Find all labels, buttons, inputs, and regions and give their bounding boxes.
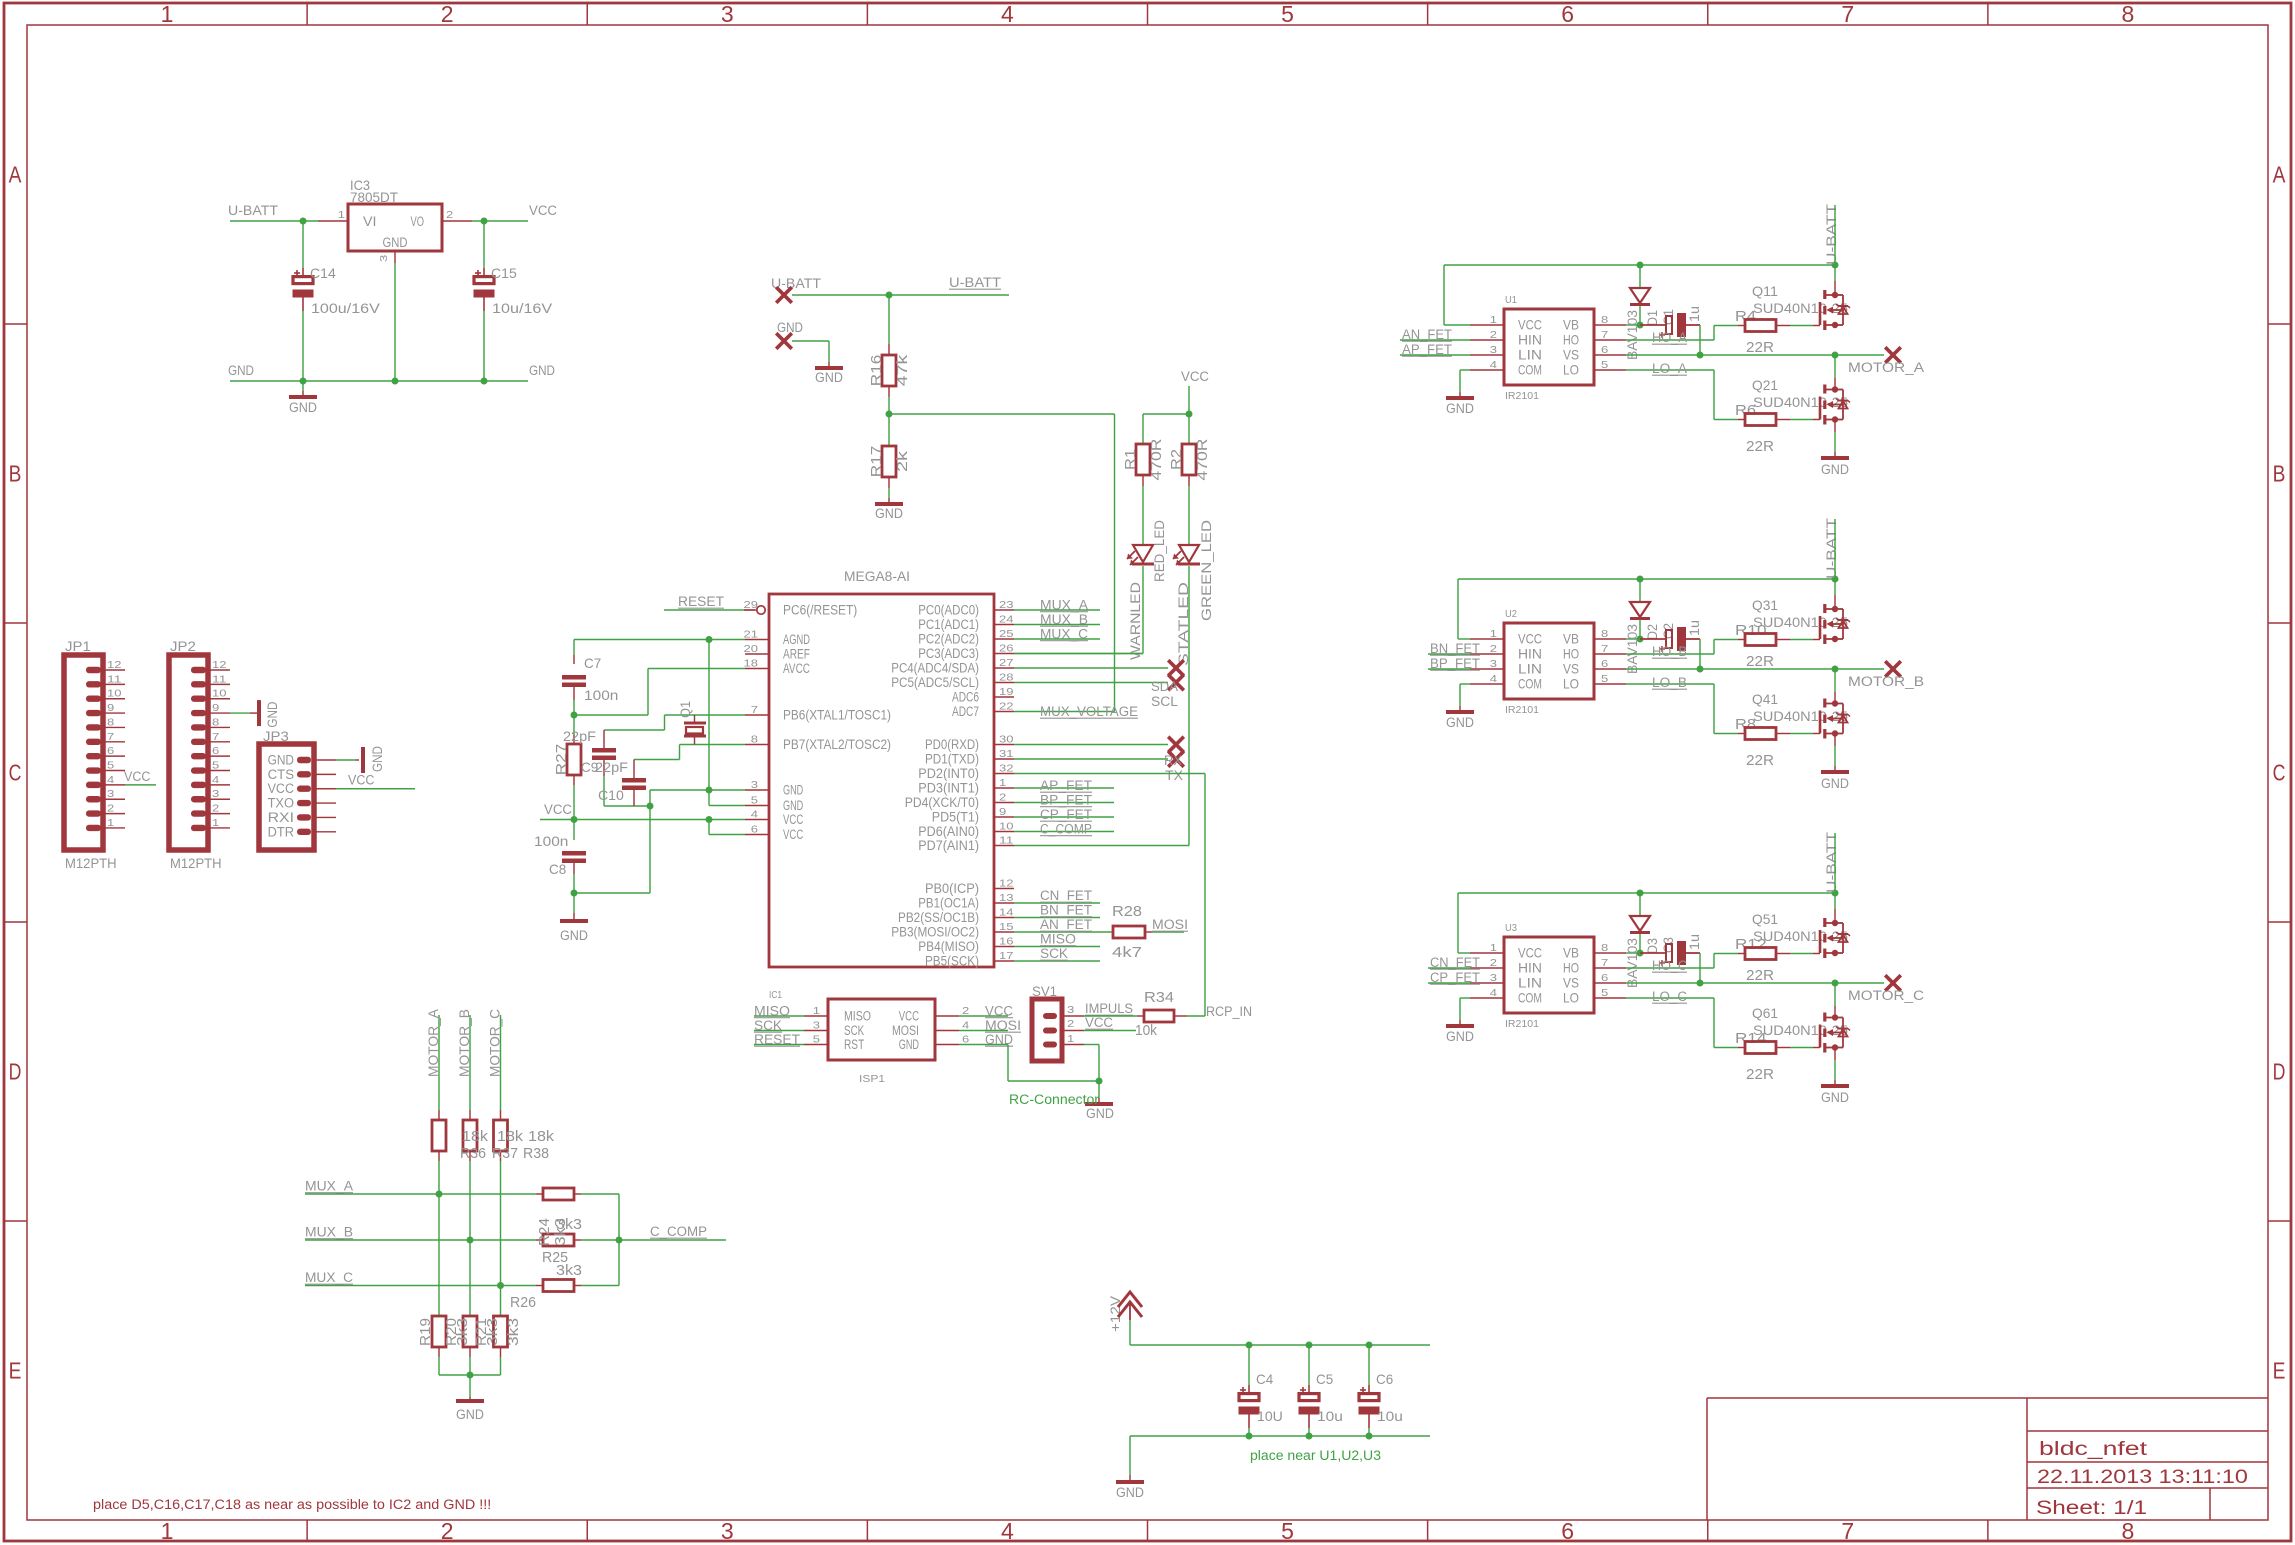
svg-text:8: 8	[2122, 1518, 2135, 1544]
svg-text:Q61: Q61	[1752, 1005, 1778, 1021]
svg-text:HIN: HIN	[1518, 332, 1542, 348]
svg-text:bldc_nfet: bldc_nfet	[2039, 1439, 2148, 1460]
svg-text:GND: GND	[383, 235, 408, 250]
svg-text:IMPULS: IMPULS	[1085, 1001, 1133, 1016]
svg-text:SUD40N10-25: SUD40N10-25	[1753, 300, 1848, 316]
svg-text:VCC: VCC	[1518, 317, 1542, 333]
svg-text:JP1: JP1	[65, 638, 91, 654]
svg-text:GND: GND	[1821, 462, 1849, 477]
svg-text:2: 2	[962, 1005, 969, 1017]
svg-text:22R: 22R	[1746, 438, 1774, 455]
svg-text:10u/16V: 10u/16V	[492, 300, 553, 316]
svg-text:C8: C8	[549, 861, 566, 877]
svg-text:GND: GND	[370, 746, 385, 772]
svg-text:Q31: Q31	[1752, 597, 1778, 613]
svg-text:10: 10	[107, 688, 122, 700]
svg-text:5: 5	[1601, 987, 1608, 999]
svg-text:C10: C10	[598, 787, 624, 803]
svg-text:1: 1	[107, 817, 114, 829]
svg-text:5: 5	[1281, 1, 1294, 27]
svg-text:6: 6	[1601, 344, 1608, 356]
svg-text:1: 1	[813, 1005, 820, 1017]
svg-text:place near U1,U2,U3: place near U1,U2,U3	[1250, 1448, 1381, 1463]
svg-text:MISO: MISO	[754, 1004, 790, 1019]
svg-text:U-BATT: U-BATT	[228, 203, 278, 218]
svg-text:PB4(MISO): PB4(MISO)	[918, 939, 979, 954]
svg-text:B: B	[9, 461, 22, 487]
svg-text:4: 4	[1001, 1518, 1014, 1544]
svg-text:SUD40N10-25: SUD40N10-25	[1753, 708, 1848, 724]
svg-text:7805DT: 7805DT	[350, 189, 398, 205]
svg-text:MUX_VOLTAGE: MUX_VOLTAGE	[1040, 704, 1138, 719]
svg-text:29: 29	[744, 599, 759, 611]
svg-text:PC6(/RESET): PC6(/RESET)	[783, 603, 857, 618]
svg-text:7: 7	[1601, 643, 1608, 655]
svg-text:LO: LO	[1563, 990, 1579, 1006]
svg-text:BP_FET: BP_FET	[1040, 793, 1092, 808]
svg-text:MISO: MISO	[844, 1009, 871, 1024]
svg-text:GND: GND	[289, 400, 317, 415]
svg-text:6: 6	[1561, 1, 1574, 27]
svg-text:A: A	[2273, 162, 2286, 188]
svg-text:VB: VB	[1563, 631, 1579, 647]
svg-text:5: 5	[1281, 1518, 1294, 1544]
svg-text:IR2101: IR2101	[1505, 1018, 1539, 1030]
svg-text:3k3: 3k3	[556, 1262, 582, 1279]
svg-text:100u/16V: 100u/16V	[311, 300, 381, 316]
svg-text:2: 2	[1490, 957, 1497, 969]
svg-text:4: 4	[107, 774, 114, 786]
svg-text:22R: 22R	[1746, 1066, 1774, 1083]
svg-text:Q51: Q51	[1752, 911, 1778, 927]
svg-text:PD3(INT1): PD3(INT1)	[918, 781, 979, 796]
svg-text:AGND: AGND	[783, 632, 810, 647]
svg-text:18k: 18k	[528, 1128, 555, 1145]
svg-text:3: 3	[751, 779, 758, 791]
svg-text:32: 32	[999, 763, 1014, 775]
svg-text:30: 30	[999, 734, 1014, 746]
svg-text:MUX_C: MUX_C	[1040, 627, 1088, 642]
svg-text:VCC: VCC	[1181, 369, 1209, 384]
svg-text:GND: GND	[265, 701, 280, 727]
svg-text:2k: 2k	[894, 450, 911, 472]
svg-text:PC0(ADC0): PC0(ADC0)	[918, 603, 979, 618]
svg-text:100n: 100n	[584, 687, 618, 703]
svg-text:2: 2	[999, 792, 1006, 804]
svg-text:U1: U1	[1505, 294, 1517, 306]
svg-text:26: 26	[999, 643, 1014, 655]
svg-text:20: 20	[744, 643, 759, 655]
svg-text:E: E	[2273, 1358, 2286, 1384]
svg-text:RESET: RESET	[678, 594, 724, 609]
svg-text:22: 22	[999, 701, 1014, 713]
svg-text:BN_FET: BN_FET	[1040, 903, 1092, 918]
svg-text:VB: VB	[1563, 945, 1579, 961]
svg-text:PD1(TXD): PD1(TXD)	[925, 752, 979, 767]
svg-text:ISP1: ISP1	[859, 1073, 885, 1085]
svg-text:RXI: RXI	[268, 810, 294, 825]
svg-text:3: 3	[721, 1518, 734, 1544]
svg-text:21: 21	[744, 629, 759, 641]
svg-text:17: 17	[999, 950, 1014, 962]
svg-text:ADC6: ADC6	[952, 690, 979, 705]
svg-text:place D5,C16,C17,C18 as near a: place D5,C16,C17,C18 as near as possible…	[93, 1497, 491, 1512]
svg-text:1u: 1u	[1686, 934, 1702, 950]
svg-text:PC3(ADC3): PC3(ADC3)	[918, 646, 979, 661]
svg-text:SCK: SCK	[844, 1023, 864, 1038]
svg-text:2: 2	[446, 209, 453, 221]
svg-text:2: 2	[1067, 1018, 1074, 1030]
svg-text:TX: TX	[1165, 768, 1183, 783]
svg-text:BAV103: BAV103	[1624, 310, 1640, 360]
svg-text:GND: GND	[1446, 1029, 1474, 1044]
svg-text:2: 2	[1490, 329, 1497, 341]
svg-text:MOTOR_B: MOTOR_B	[1848, 674, 1924, 689]
svg-text:GND: GND	[560, 928, 588, 943]
svg-text:LIN: LIN	[1518, 661, 1542, 677]
svg-text:GND: GND	[1821, 776, 1849, 791]
svg-text:R1: R1	[1122, 449, 1139, 470]
svg-text:MUX_B: MUX_B	[305, 1225, 353, 1240]
svg-text:RED_LED: RED_LED	[1152, 520, 1167, 582]
svg-text:1u: 1u	[1686, 620, 1702, 636]
svg-text:PB6(XTAL1/TOSC1): PB6(XTAL1/TOSC1)	[783, 708, 891, 723]
svg-text:PC5(ADC5/SCL): PC5(ADC5/SCL)	[891, 675, 979, 690]
svg-text:GND: GND	[1116, 1485, 1144, 1500]
svg-text:VCC: VCC	[124, 769, 151, 784]
svg-text:HO_A: HO_A	[1652, 330, 1687, 345]
svg-text:5: 5	[1601, 673, 1608, 685]
svg-text:1: 1	[338, 209, 345, 221]
svg-text:MOTOR_A: MOTOR_A	[1848, 360, 1924, 375]
svg-text:VCC: VCC	[783, 812, 803, 827]
svg-text:10u: 10u	[1317, 1408, 1343, 1424]
svg-text:PD0(RXD): PD0(RXD)	[925, 737, 979, 752]
svg-text:1: 1	[212, 817, 219, 829]
svg-text:VCC: VCC	[1085, 1015, 1113, 1030]
svg-text:U-BATT: U-BATT	[949, 275, 1001, 290]
svg-text:7: 7	[212, 731, 219, 743]
svg-text:1: 1	[1490, 628, 1497, 640]
svg-text:Q11: Q11	[1752, 283, 1778, 299]
svg-text:HO_C: HO_C	[1652, 958, 1687, 973]
svg-text:3k3: 3k3	[556, 1216, 582, 1233]
svg-text:C: C	[9, 760, 22, 786]
svg-text:11: 11	[107, 673, 122, 685]
svg-text:TXO: TXO	[268, 796, 294, 811]
svg-text:CTS: CTS	[268, 767, 294, 782]
svg-text:C4: C4	[1256, 1371, 1273, 1387]
svg-text:22pF: 22pF	[595, 759, 628, 775]
svg-text:MUX_A: MUX_A	[305, 1179, 353, 1194]
svg-text:MUX_B: MUX_B	[1040, 612, 1088, 627]
svg-text:PB0(ICP): PB0(ICP)	[925, 881, 979, 896]
svg-text:7: 7	[1601, 329, 1608, 341]
svg-text:PC2(ADC2): PC2(ADC2)	[918, 632, 979, 647]
svg-text:MOSI: MOSI	[892, 1023, 919, 1038]
svg-text:4: 4	[212, 774, 219, 786]
svg-text:11: 11	[212, 673, 227, 685]
svg-text:PB1(OC1A): PB1(OC1A)	[918, 896, 979, 911]
svg-text:RC-Connector: RC-Connector	[1009, 1092, 1100, 1107]
svg-text:R26: R26	[510, 1294, 536, 1311]
svg-text:D: D	[2273, 1059, 2286, 1085]
svg-text:2: 2	[441, 1518, 454, 1544]
svg-text:IC1: IC1	[769, 989, 782, 1001]
svg-text:10: 10	[999, 821, 1014, 833]
svg-text:5: 5	[107, 760, 114, 772]
svg-text:8: 8	[751, 734, 758, 746]
svg-text:D3: D3	[1644, 938, 1660, 954]
svg-text:CP_FET: CP_FET	[1040, 807, 1092, 822]
svg-text:SDA: SDA	[1151, 679, 1178, 694]
svg-text:RX: RX	[1164, 753, 1182, 768]
svg-text:6: 6	[1601, 972, 1608, 984]
svg-text:C15: C15	[491, 265, 517, 281]
svg-text:AVCC: AVCC	[783, 661, 810, 676]
svg-text:HO_B: HO_B	[1652, 644, 1687, 659]
svg-text:3: 3	[1490, 972, 1497, 984]
svg-text:4: 4	[1490, 987, 1497, 999]
svg-text:Q21: Q21	[1752, 377, 1778, 393]
svg-text:GND: GND	[783, 798, 803, 813]
svg-text:3: 3	[1490, 658, 1497, 670]
svg-text:SUD40N10-25: SUD40N10-25	[1753, 1022, 1848, 1038]
svg-text:4: 4	[1490, 359, 1497, 371]
svg-text:U2: U2	[1505, 608, 1517, 620]
svg-text:11: 11	[999, 835, 1014, 847]
svg-text:47k: 47k	[894, 354, 911, 386]
svg-text:VCC: VCC	[268, 781, 295, 796]
svg-text:STATLED: STATLED	[1176, 582, 1191, 666]
svg-text:SCK: SCK	[754, 1018, 782, 1033]
svg-text:GND: GND	[456, 1407, 484, 1422]
svg-text:AREF: AREF	[783, 647, 810, 662]
svg-text:C5: C5	[1316, 1371, 1333, 1387]
svg-text:7: 7	[1841, 1518, 1854, 1544]
svg-text:3k3: 3k3	[484, 1318, 501, 1346]
svg-text:PD2(INT0): PD2(INT0)	[918, 766, 979, 781]
svg-text:R34: R34	[1144, 989, 1174, 1006]
svg-text:1: 1	[1067, 1033, 1074, 1045]
svg-text:IR2101: IR2101	[1505, 704, 1539, 716]
svg-text:GND: GND	[1086, 1106, 1114, 1121]
svg-text:6: 6	[751, 824, 758, 836]
svg-text:VS: VS	[1563, 975, 1579, 991]
svg-text:31: 31	[999, 748, 1014, 760]
svg-text:PD6(AIN0): PD6(AIN0)	[918, 824, 979, 839]
svg-text:VO: VO	[411, 214, 425, 229]
svg-text:16: 16	[999, 936, 1014, 948]
svg-text:5: 5	[212, 760, 219, 772]
svg-text:VCC: VCC	[544, 802, 572, 817]
svg-text:M12PTH: M12PTH	[170, 855, 222, 871]
svg-text:CN_FET: CN_FET	[1040, 888, 1092, 903]
svg-text:8: 8	[212, 716, 219, 728]
svg-text:VI: VI	[363, 214, 377, 229]
svg-text:10: 10	[212, 688, 227, 700]
svg-text:22R: 22R	[1746, 339, 1774, 356]
svg-text:SCK: SCK	[1040, 946, 1068, 961]
svg-text:3: 3	[1490, 344, 1497, 356]
svg-text:8: 8	[1601, 942, 1608, 954]
svg-text:LO_A: LO_A	[1652, 361, 1687, 376]
svg-text:VS: VS	[1563, 661, 1579, 677]
svg-text:RESET: RESET	[754, 1032, 800, 1047]
svg-text:6: 6	[107, 745, 114, 757]
svg-text:D: D	[9, 1059, 22, 1085]
svg-text:8: 8	[107, 716, 114, 728]
svg-text:PB2(SS/OC1B): PB2(SS/OC1B)	[898, 910, 979, 925]
svg-text:Sheet: 1/1: Sheet: 1/1	[2036, 1498, 2147, 1519]
svg-text:GND: GND	[815, 370, 843, 385]
svg-text:C_COMP: C_COMP	[1040, 822, 1092, 837]
svg-text:3: 3	[813, 1020, 820, 1032]
svg-text:D2: D2	[1644, 624, 1660, 640]
svg-text:PC4(ADC4/SDA): PC4(ADC4/SDA)	[891, 661, 979, 676]
svg-text:LIN: LIN	[1518, 975, 1542, 991]
svg-text:HIN: HIN	[1518, 646, 1542, 662]
svg-text:LO: LO	[1563, 362, 1579, 378]
svg-text:VCC: VCC	[348, 773, 375, 788]
svg-text:Q41: Q41	[1752, 691, 1778, 707]
svg-text:WARNLED: WARNLED	[1128, 582, 1143, 660]
svg-text:PB7(XTAL2/TOSC2): PB7(XTAL2/TOSC2)	[783, 737, 891, 752]
svg-text:SCL: SCL	[1151, 694, 1179, 709]
svg-text:MISO: MISO	[1040, 932, 1076, 947]
svg-text:LO_C: LO_C	[1652, 989, 1687, 1004]
svg-text:2: 2	[441, 1, 454, 27]
svg-text:22pF: 22pF	[563, 728, 596, 744]
svg-text:VCC: VCC	[899, 1009, 919, 1024]
svg-text:PC1(ADC1): PC1(ADC1)	[918, 617, 979, 632]
svg-text:R36: R36	[460, 1145, 486, 1162]
svg-text:7: 7	[1601, 957, 1608, 969]
svg-text:22R: 22R	[1746, 752, 1774, 769]
svg-text:10u: 10u	[1377, 1408, 1403, 1424]
svg-text:U-BATT: U-BATT	[1824, 832, 1839, 893]
svg-text:3: 3	[107, 788, 114, 800]
svg-text:LIN: LIN	[1518, 347, 1542, 363]
svg-text:24: 24	[999, 614, 1014, 626]
svg-text:14: 14	[999, 907, 1014, 919]
svg-text:D1: D1	[1644, 310, 1660, 326]
svg-text:28: 28	[999, 672, 1014, 684]
svg-text:4: 4	[1490, 673, 1497, 685]
svg-text:1: 1	[161, 1, 174, 27]
svg-text:RST: RST	[844, 1037, 864, 1052]
svg-text:B: B	[2273, 461, 2286, 487]
svg-text:VCC: VCC	[1518, 945, 1542, 961]
svg-text:18: 18	[744, 658, 759, 670]
svg-text:A: A	[9, 162, 22, 188]
svg-text:25: 25	[999, 628, 1014, 640]
svg-text:R24: R24	[536, 1218, 553, 1246]
svg-text:6: 6	[962, 1034, 969, 1046]
svg-text:JP2: JP2	[170, 638, 196, 654]
svg-text:E: E	[9, 1358, 22, 1384]
svg-text:MEGA8-AI: MEGA8-AI	[844, 568, 910, 584]
svg-text:18k: 18k	[497, 1128, 524, 1145]
svg-text:6: 6	[1601, 658, 1608, 670]
svg-text:9: 9	[107, 702, 114, 714]
svg-text:IR2101: IR2101	[1505, 390, 1539, 402]
svg-text:SUD40N10-25: SUD40N10-25	[1753, 928, 1848, 944]
svg-text:8: 8	[1601, 628, 1608, 640]
svg-text:GND: GND	[529, 363, 555, 378]
svg-text:GND: GND	[268, 753, 295, 768]
svg-text:MUX_A: MUX_A	[1040, 598, 1088, 613]
svg-text:C7: C7	[584, 655, 601, 671]
svg-text:10U: 10U	[1257, 1408, 1283, 1424]
svg-text:18k: 18k	[462, 1128, 489, 1145]
svg-text:RCP_IN: RCP_IN	[1206, 1004, 1252, 1019]
svg-text:U-BATT: U-BATT	[1824, 518, 1839, 579]
svg-text:Q1: Q1	[677, 701, 693, 718]
svg-text:12: 12	[107, 659, 122, 671]
svg-text:C: C	[2273, 760, 2286, 786]
svg-text:R28: R28	[1112, 903, 1142, 920]
svg-text:2: 2	[212, 803, 219, 815]
svg-text:1: 1	[1490, 942, 1497, 954]
svg-text:HO: HO	[1563, 646, 1579, 662]
svg-text:GND: GND	[1446, 715, 1474, 730]
svg-text:3: 3	[1067, 1004, 1074, 1016]
svg-text:2: 2	[1490, 643, 1497, 655]
svg-text:MUX_C: MUX_C	[305, 1270, 353, 1285]
svg-text:VCC: VCC	[529, 203, 557, 218]
svg-text:3k3: 3k3	[505, 1318, 522, 1346]
svg-text:470R: 470R	[1194, 438, 1211, 480]
svg-text:5: 5	[1601, 359, 1608, 371]
svg-text:MOTOR_C: MOTOR_C	[1848, 988, 1924, 1003]
svg-text:7: 7	[107, 731, 114, 743]
svg-text:3: 3	[212, 788, 219, 800]
svg-text:PD5(T1): PD5(T1)	[932, 810, 979, 825]
svg-text:R38: R38	[523, 1145, 549, 1162]
svg-text:12: 12	[212, 659, 227, 671]
svg-text:7: 7	[1841, 1, 1854, 27]
svg-text:13: 13	[999, 892, 1014, 904]
svg-text:PB3(MOSI/OC2): PB3(MOSI/OC2)	[891, 925, 979, 940]
svg-text:100n: 100n	[534, 833, 568, 849]
svg-text:2: 2	[107, 803, 114, 815]
svg-text:1: 1	[161, 1518, 174, 1544]
svg-text:PD7(AIN1): PD7(AIN1)	[918, 838, 979, 853]
svg-text:GREEN_LED: GREEN_LED	[1199, 520, 1214, 621]
svg-text:R17: R17	[868, 446, 885, 478]
svg-text:LO: LO	[1563, 676, 1579, 692]
svg-text:C14: C14	[310, 265, 336, 281]
svg-text:C_COMP: C_COMP	[650, 1224, 707, 1239]
svg-text:COM: COM	[1518, 362, 1542, 378]
svg-text:4: 4	[751, 809, 758, 821]
svg-text:1u: 1u	[1686, 306, 1702, 322]
svg-text:GND: GND	[1446, 401, 1474, 416]
svg-text:M12PTH: M12PTH	[65, 855, 117, 871]
svg-text:AN_FET: AN_FET	[1040, 917, 1092, 932]
svg-text:1: 1	[999, 777, 1006, 789]
svg-text:9: 9	[999, 806, 1006, 818]
svg-text:BAV103: BAV103	[1624, 938, 1640, 988]
svg-text:VS: VS	[1563, 347, 1579, 363]
svg-text:C6: C6	[1376, 1371, 1393, 1387]
svg-text:VCC: VCC	[783, 827, 803, 842]
svg-text:8: 8	[2122, 1, 2135, 27]
svg-text:22R: 22R	[1746, 653, 1774, 670]
svg-text:VCC: VCC	[1518, 631, 1542, 647]
svg-text:22.11.2013 13:11:10: 22.11.2013 13:11:10	[2037, 1467, 2248, 1488]
